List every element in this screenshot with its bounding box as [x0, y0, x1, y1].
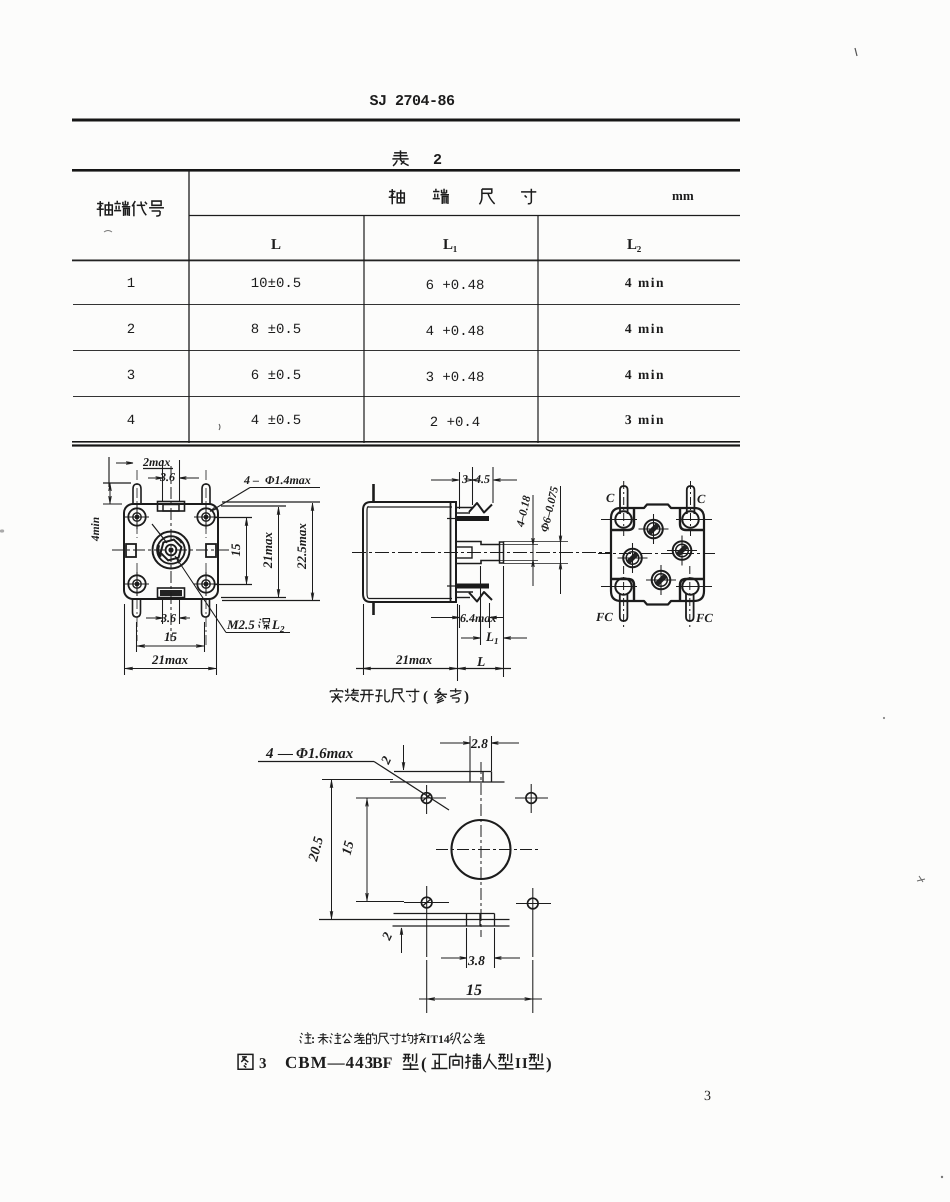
svg-text:CBM—443: CBM—443	[285, 1053, 374, 1072]
svg-text:3: 3	[259, 1056, 267, 1072]
front top pin left	[133, 484, 141, 504]
top plate band	[394, 771, 492, 773]
front screw top-right	[197, 508, 214, 525]
front side tab right	[206, 544, 216, 557]
front bottom pin right	[202, 599, 210, 617]
svg-text:3 +0.48: 3 +0.48	[426, 370, 485, 386]
svg-text:22.5max: 22.5max	[294, 523, 309, 570]
svg-text:(: (	[421, 1054, 427, 1073]
ext lines for shaft dims	[481, 544, 538, 546]
smudge under header cell	[104, 231, 112, 233]
svg-text:–: –	[252, 473, 259, 487]
rear corner pad TR	[680, 508, 704, 530]
svg-text:—: —	[277, 746, 293, 762]
table header divider under axis row	[189, 215, 740, 217]
front top tab	[158, 502, 185, 512]
bushing outline	[456, 542, 500, 564]
caption: anzhuang kaikong chicun (cankao)	[330, 688, 342, 702]
svg-text:3.6: 3.6	[159, 470, 175, 484]
svg-text:4min: 4min	[90, 517, 102, 542]
rear rivet right	[673, 541, 692, 560]
svg-text:SJ 2704-86: SJ 2704-86	[369, 93, 455, 110]
rear corner centerlines	[601, 519, 637, 521]
hole top-right	[526, 793, 537, 804]
shaft end bar	[500, 542, 504, 563]
svg-text:2: 2	[433, 152, 442, 169]
svg-text:3 min: 3 min	[625, 412, 665, 427]
svg-text:2: 2	[637, 244, 642, 254]
svg-text:3: 3	[127, 368, 135, 384]
svg-text:15: 15	[164, 629, 178, 644]
bottom plate band	[394, 913, 495, 915]
hole bottom-left	[421, 897, 432, 908]
svg-text:21max: 21max	[260, 531, 275, 569]
svg-text:10±0.5: 10±0.5	[251, 276, 301, 292]
svg-text:IT14: IT14	[426, 1034, 450, 1046]
side view group	[352, 467, 610, 681]
rear pin BR	[686, 593, 694, 621]
svg-text:C: C	[697, 492, 706, 506]
svg-text:21max: 21max	[395, 652, 433, 667]
row divider 1	[73, 304, 740, 306]
svg-text:4 min: 4 min	[625, 367, 665, 382]
rear rivet left	[623, 549, 642, 568]
vertical divider col3	[537, 215, 539, 443]
side bottom lug bar	[455, 584, 489, 589]
svg-text:4: 4	[127, 413, 135, 429]
stray mark left edge	[0, 529, 4, 532]
svg-text:1: 1	[453, 244, 458, 254]
front screw bottom-right	[197, 575, 214, 592]
stray mark top right	[855, 48, 857, 56]
rear corner circle TL	[615, 511, 631, 527]
caption biao 2	[392, 150, 408, 166]
svg-text:3.8: 3.8	[467, 953, 485, 968]
svg-text:2max: 2max	[142, 455, 170, 469]
front top pin right	[202, 484, 210, 504]
stray speck	[941, 1176, 943, 1178]
rear corner circle BL	[615, 578, 631, 594]
front screw top-left	[128, 508, 145, 525]
rear rivet top	[644, 520, 663, 539]
svg-text:1: 1	[127, 276, 135, 292]
big hole circle	[452, 820, 511, 879]
svg-text:2.8: 2.8	[470, 736, 488, 751]
svg-text:4: 4	[243, 473, 250, 487]
svg-text:II: II	[515, 1056, 529, 1072]
svg-text:15: 15	[466, 982, 482, 999]
svg-text:2 +0.4: 2 +0.4	[430, 415, 480, 431]
rear corner pad BL	[611, 579, 634, 601]
header rule	[72, 119, 740, 122]
vertical divider col2	[363, 215, 365, 443]
side bottom lug with break	[456, 591, 473, 593]
front body	[124, 504, 218, 599]
hole top-left	[421, 793, 432, 804]
rear view group	[595, 481, 716, 627]
front bottom tab	[158, 588, 185, 598]
side body	[363, 502, 456, 602]
svg-text:L: L	[627, 237, 637, 253]
figure caption	[238, 1054, 253, 1069]
svg-text:4 min: 4 min	[625, 321, 665, 336]
knob diag mark	[152, 524, 167, 543]
side top pin	[372, 484, 375, 502]
front centerline horizontal	[112, 549, 231, 551]
svg-text:L: L	[271, 617, 280, 632]
svg-text:): )	[546, 1054, 552, 1073]
rear centerline horizontal	[598, 553, 716, 555]
svg-text:M2.5: M2.5	[226, 617, 255, 632]
svg-text:L: L	[485, 629, 494, 644]
shaft inner rect	[456, 547, 472, 558]
svg-text:4 ±0.5: 4 ±0.5	[251, 413, 301, 429]
svg-text:(: (	[423, 689, 428, 705]
vertical divider col1	[188, 170, 190, 443]
svg-text:Φ1.6max: Φ1.6max	[296, 746, 354, 762]
front view group	[90, 455, 320, 675]
svg-text:BF: BF	[372, 1055, 393, 1072]
side centerline	[352, 552, 610, 554]
front centerline vertical	[170, 466, 172, 641]
front side tab left	[126, 544, 136, 557]
svg-text:1: 1	[494, 636, 499, 646]
side bottom pin	[372, 602, 375, 615]
stray mark right low	[917, 876, 925, 882]
rear corner circle TR	[682, 511, 698, 527]
svg-text:C: C	[606, 491, 615, 505]
front central knob	[153, 532, 190, 569]
svg-text:mm: mm	[672, 188, 694, 203]
big hole centerlines	[436, 849, 541, 851]
screw centerlines vertical	[136, 470, 138, 538]
front bottom pin left	[133, 599, 141, 617]
svg-text:L: L	[271, 237, 281, 253]
table header bottom line	[72, 260, 740, 262]
svg-text:8 ±0.5: 8 ±0.5	[251, 322, 301, 338]
svg-text::: :	[311, 1032, 315, 1046]
svg-text:6 +0.48: 6 +0.48	[426, 278, 485, 294]
knob shading arc	[158, 545, 161, 557]
svg-text:4: 4	[265, 746, 274, 762]
table data rows	[219, 424, 220, 430]
rear corner pad BR	[680, 579, 704, 601]
rear pin TL	[620, 486, 628, 514]
svg-text:2: 2	[127, 322, 135, 338]
rear corner circle BR	[682, 578, 698, 594]
svg-text:): )	[464, 689, 469, 705]
table bottom border	[72, 441, 740, 443]
top slot box	[469, 772, 471, 783]
rear pin BL	[620, 593, 628, 621]
svg-text:3: 3	[704, 1089, 711, 1104]
rear corner pad TL	[611, 508, 634, 530]
rear pin TR	[687, 486, 695, 514]
mounting drawing group	[258, 736, 551, 1013]
svg-text:FC: FC	[695, 611, 713, 625]
svg-text:6 ±0.5: 6 ±0.5	[251, 368, 301, 384]
side panel double line	[450, 502, 452, 602]
front screw bottom-left	[128, 575, 145, 592]
header cell: zhou duan dai hao	[97, 201, 113, 216]
bottom slot box	[466, 914, 468, 927]
svg-text:4 min: 4 min	[625, 275, 665, 290]
table top border	[72, 169, 740, 172]
header: zhou duan chi cun spaced	[389, 189, 405, 204]
svg-text:Φ1.4max: Φ1.4max	[265, 473, 311, 487]
svg-text:L: L	[443, 237, 453, 253]
svg-text:L: L	[476, 654, 485, 669]
svg-text:FC: FC	[595, 610, 613, 624]
rear body outline	[611, 505, 704, 605]
side top lug bar	[455, 516, 489, 521]
row divider 2	[73, 350, 740, 352]
svg-text:4 +0.48: 4 +0.48	[426, 324, 485, 340]
side body inner left line	[367, 507, 452, 599]
side body inner top line	[368, 506, 452, 508]
svg-text:15: 15	[228, 543, 243, 557]
svg-text:21max: 21max	[151, 652, 189, 667]
rear rivet bottom	[652, 571, 671, 590]
hole bottom-right	[528, 898, 539, 909]
note line	[300, 1033, 312, 1044]
side top lug with break	[456, 507, 473, 509]
row divider 3	[73, 396, 740, 398]
